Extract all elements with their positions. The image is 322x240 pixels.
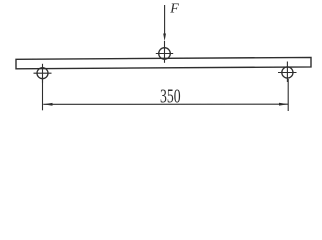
svg-text:F: F (169, 2, 179, 17)
svg-text:350: 350 (160, 85, 181, 107)
